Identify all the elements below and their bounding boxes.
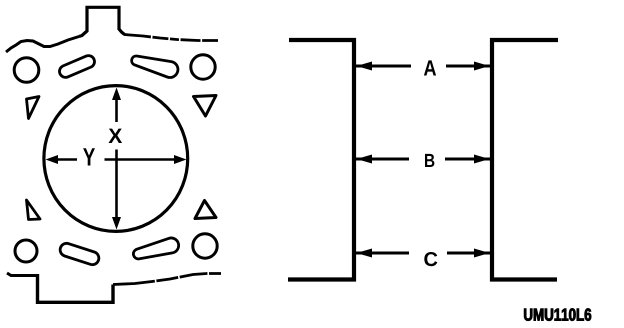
measure B left arrow [356,158,409,161]
Y label [83,148,95,165]
X top arrowhead [112,88,121,101]
bolt hole circle bottom-right [193,234,217,258]
right cylinder wall [490,38,494,282]
gasket alignment tab [79,7,125,36]
coolant slot bottom-middle [133,238,178,259]
X dimension arrow bottom segment [115,150,118,219]
top-right deck flange [490,38,558,42]
cylinder bore circle [44,86,188,232]
gasket bottom-left edge [7,273,38,276]
Y dimension arrow right segment [105,158,175,161]
coolant slot top-right [132,56,178,78]
gasket bottom step [38,274,114,302]
triangle lower-right [195,201,216,219]
bolt hole circle bottom-left [15,240,37,262]
Y left arrowhead [46,155,59,164]
bottom-left flange [288,277,356,281]
measure B right arrow [445,158,490,161]
X bottom arrowhead [112,217,121,230]
measure C label [424,252,437,266]
top-left deck flange [289,38,356,42]
left cylinder wall [352,38,356,282]
bolt hole circle top-left [14,58,39,83]
bottom-right flange [490,277,557,281]
coolant slot top-left [58,54,97,80]
X dimension arrow top segment [115,98,118,122]
gasket top-left wavy edge [6,37,79,53]
measure C left arrow [356,252,409,255]
wedge triangle lower-left [27,200,41,220]
Y dimension arrow left segment [57,158,77,161]
gasket bottom-right rising edge [113,274,221,285]
Y right arrowhead [174,155,187,164]
inverted triangle upper-right [194,96,217,117]
teardrop wedge upper-left [27,97,40,119]
measure A left arrow [356,65,411,68]
measure A right arrow [446,65,490,68]
figure reference code [524,309,591,321]
measure A label [424,60,436,75]
X label [109,129,123,143]
coolant slot bottom-left [58,242,100,267]
gasket top-right edge [124,35,218,41]
bolt hole circle top-right [191,55,215,79]
measure B label [425,154,434,167]
measure C right arrow [447,252,490,255]
